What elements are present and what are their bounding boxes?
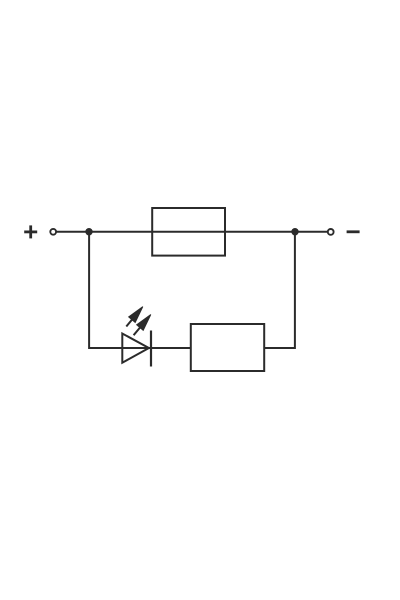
LED D1 triangle — [122, 334, 149, 363]
LED D1 cathode bar — [150, 331, 152, 367]
node B junction dot — [291, 228, 298, 235]
wire left vertical — [89, 232, 191, 348]
terminal circle right — [328, 229, 334, 235]
wire top horizontal — [56, 231, 327, 233]
node A junction dot — [85, 228, 92, 235]
wire bottom right — [264, 232, 295, 348]
resistor R1 box — [191, 324, 264, 371]
terminal circle left — [50, 229, 56, 235]
LED light arrow 2 — [134, 315, 151, 336]
LED light arrow 1 — [126, 307, 143, 327]
minus terminal label — [347, 230, 360, 233]
plus terminal label — [24, 225, 37, 238]
fuse F1 — [152, 208, 225, 256]
